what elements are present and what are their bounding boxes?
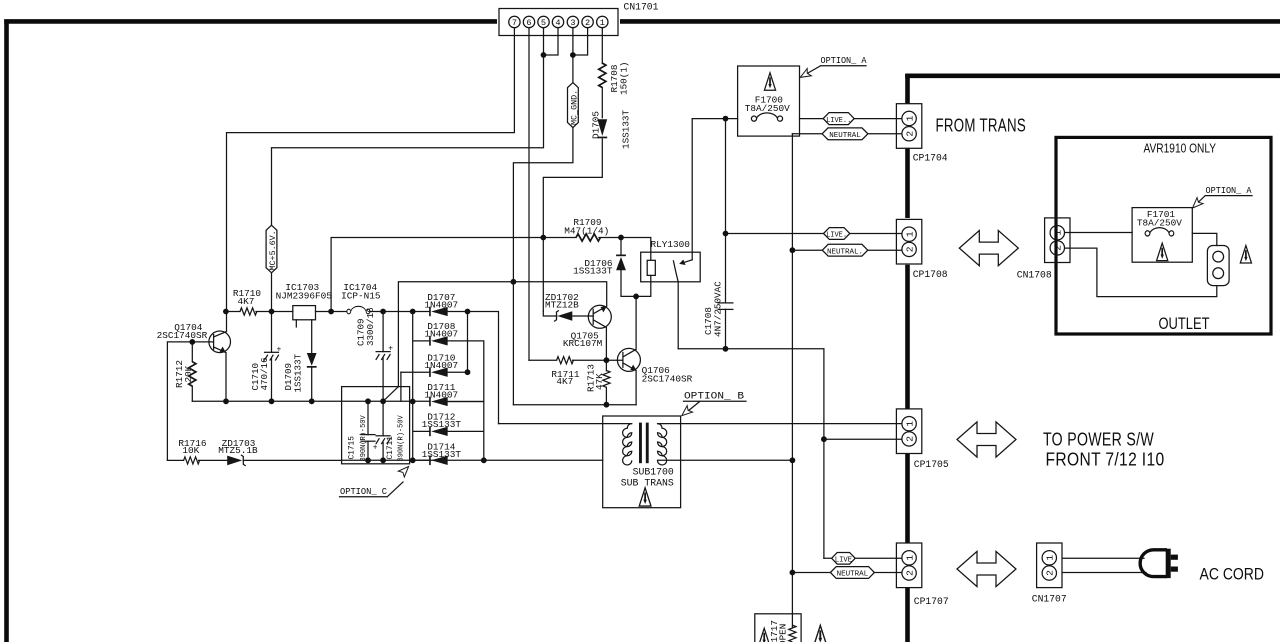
svg-text:1N4007: 1N4007 bbox=[424, 329, 458, 340]
svg-text:AVR1910 ONLY: AVR1910 ONLY bbox=[1144, 140, 1217, 155]
svg-text:SUB TRANS: SUB TRANS bbox=[621, 478, 674, 489]
svg-text:150(1): 150(1) bbox=[619, 62, 630, 95]
svg-text:OUTLET: OUTLET bbox=[1159, 315, 1210, 333]
svg-text:1SS133T: 1SS133T bbox=[292, 353, 303, 392]
svg-text:SUB1700: SUB1700 bbox=[633, 466, 674, 477]
svg-text:+: + bbox=[373, 444, 378, 453]
svg-text:T8A/250V: T8A/250V bbox=[745, 103, 790, 114]
svg-text:7: 7 bbox=[512, 18, 517, 28]
svg-text:MTZ5.1B: MTZ5.1B bbox=[218, 445, 258, 456]
svg-text:6: 6 bbox=[526, 18, 531, 28]
svg-text:OPTION_ C: OPTION_ C bbox=[340, 486, 387, 497]
svg-text:MC_GND.: MC_GND. bbox=[569, 90, 579, 125]
svg-text:MTZ12B: MTZ12B bbox=[545, 299, 579, 310]
svg-text:1: 1 bbox=[600, 18, 605, 28]
svg-text:CP1705: CP1705 bbox=[914, 459, 949, 470]
svg-text:KRC107M: KRC107M bbox=[563, 338, 603, 349]
svg-text:ICP-N15: ICP-N15 bbox=[341, 291, 381, 302]
svg-text:FROM TRANS: FROM TRANS bbox=[936, 116, 1027, 136]
svg-text:FRONT 7/12 I10: FRONT 7/12 I10 bbox=[1046, 450, 1165, 470]
svg-text:LIVE: LIVE bbox=[835, 557, 852, 565]
svg-text:47K: 47K bbox=[594, 373, 605, 390]
svg-text:1N4007: 1N4007 bbox=[424, 299, 458, 310]
svg-text:RLY1300: RLY1300 bbox=[651, 239, 691, 250]
svg-text:2SC1740SR: 2SC1740SR bbox=[157, 330, 208, 341]
svg-text:CP1704: CP1704 bbox=[913, 153, 948, 164]
svg-text:3300/16: 3300/16 bbox=[365, 307, 376, 346]
svg-text:10K: 10K bbox=[182, 445, 199, 456]
svg-text:2SC1740SR: 2SC1740SR bbox=[642, 373, 693, 384]
svg-text:1SS133T: 1SS133T bbox=[422, 419, 462, 430]
svg-text:1SS133T: 1SS133T bbox=[422, 449, 462, 460]
svg-text:D1705: D1705 bbox=[591, 111, 602, 139]
svg-text:OPTION_ A: OPTION_ A bbox=[1206, 185, 1252, 196]
svg-text:CN1707: CN1707 bbox=[1032, 593, 1067, 604]
svg-text:C1715: C1715 bbox=[349, 436, 357, 460]
svg-text:+: + bbox=[388, 345, 393, 354]
svg-text:2: 2 bbox=[585, 18, 590, 28]
svg-text:T8A/250V: T8A/250V bbox=[1137, 218, 1182, 229]
svg-text:NJM2396F05: NJM2396F05 bbox=[276, 291, 333, 302]
svg-text:M47(1/4): M47(1/4) bbox=[564, 226, 609, 237]
svg-text:NEUTRAL: NEUTRAL bbox=[837, 571, 869, 579]
svg-text:4: 4 bbox=[555, 18, 560, 28]
svg-text:TO POWER S/W: TO POWER S/W bbox=[1043, 430, 1154, 450]
svg-text:+: + bbox=[277, 346, 282, 355]
svg-text:NEUTRAL.: NEUTRAL. bbox=[827, 248, 863, 256]
svg-text:4K7: 4K7 bbox=[238, 296, 255, 307]
svg-text:1SS133T: 1SS133T bbox=[621, 110, 632, 149]
svg-text:AC CORD: AC CORD bbox=[1200, 565, 1265, 584]
svg-text:CN1701: CN1701 bbox=[624, 2, 659, 13]
svg-text:LIVE..: LIVE.. bbox=[826, 117, 851, 125]
svg-text:1N4007: 1N4007 bbox=[424, 360, 458, 371]
svg-text:NEUTRAL: NEUTRAL bbox=[829, 132, 861, 140]
svg-text:5: 5 bbox=[541, 18, 546, 28]
svg-text:1SS133T: 1SS133T bbox=[573, 265, 613, 276]
svg-text:20K: 20K bbox=[183, 365, 194, 382]
svg-text:4N7/250VAC: 4N7/250VAC bbox=[712, 281, 723, 337]
svg-text:3: 3 bbox=[570, 18, 575, 28]
svg-text:390N(R)-50V: 390N(R)-50V bbox=[360, 414, 368, 461]
svg-text:4K7: 4K7 bbox=[556, 376, 573, 387]
svg-text:1N4007: 1N4007 bbox=[424, 390, 458, 401]
svg-text:LIVE.: LIVE. bbox=[826, 232, 847, 240]
svg-text:MC+5.6V.: MC+5.6V. bbox=[268, 230, 278, 270]
svg-text:CN1708: CN1708 bbox=[1017, 270, 1052, 281]
svg-text:470/16: 470/16 bbox=[259, 357, 270, 390]
svg-text:OPTION_ A: OPTION_ A bbox=[821, 55, 867, 66]
svg-text:390N(R)-50V: 390N(R)-50V bbox=[397, 414, 405, 461]
svg-text:CP1707: CP1707 bbox=[914, 596, 949, 607]
svg-text:CP1708: CP1708 bbox=[913, 269, 948, 280]
svg-text:C1711: C1711 bbox=[387, 436, 395, 460]
svg-text:OPEN: OPEN bbox=[778, 624, 789, 642]
